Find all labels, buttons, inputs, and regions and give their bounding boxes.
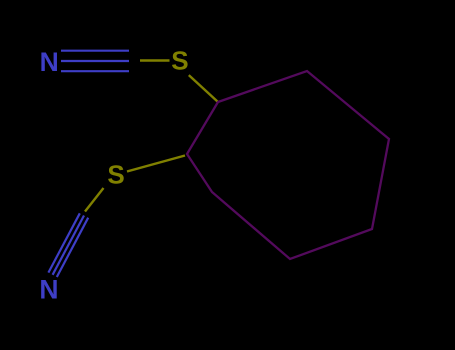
wire bond S1-A (olive)	[189, 75, 218, 102]
wire bond S2-C2 (olive, to lower thiocyanate carbon)	[85, 188, 104, 212]
wire triple bond C2#N2 (three blue lines)	[48, 213, 88, 277]
ring cycloheptane (purple, vertices A T R SE Bo C B)	[187, 71, 389, 259]
svg-text:S: S	[107, 159, 124, 189]
svg-text:N: N	[39, 274, 58, 304]
wire triple bond N1#C (three blue lines)	[61, 51, 129, 71]
wire bond C-S1 (olive)	[140, 59, 170, 61]
wire bond S2-B (olive)	[127, 156, 185, 172]
svg-text:S: S	[171, 46, 188, 76]
svg-text:N: N	[40, 47, 59, 77]
